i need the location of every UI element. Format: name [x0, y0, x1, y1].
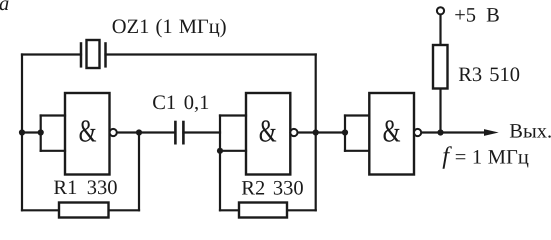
junction node U1 input bar [38, 129, 44, 135]
resistor R2 [239, 203, 287, 218]
wire U3 top input stub [345, 114, 369, 116]
capacitor C1 [175, 121, 183, 145]
junction node U2 output loop [313, 129, 319, 135]
gate U3 [369, 93, 421, 175]
svg-text:+5 В: +5 В [454, 5, 500, 27]
label OZ1 (1 MHz) [112, 16, 227, 38]
+5V terminal [437, 7, 444, 14]
wire U2 top input stub [220, 114, 246, 116]
wire bottom R2 [220, 209, 316, 211]
label R1 330 [53, 177, 117, 199]
wire U1 top input stub [41, 114, 65, 116]
svg-text:&: & [383, 113, 401, 149]
svg-text:R2 330: R2 330 [241, 178, 303, 200]
gate U1 [65, 93, 117, 175]
wire top loop right segment [106, 53, 316, 55]
svg-text:R1 330: R1 330 [53, 177, 117, 199]
label C1 0,1 [152, 92, 209, 114]
wire U3 bottom input stub [345, 150, 369, 152]
wire bottom R1 [22, 209, 139, 211]
wire U2 output [298, 131, 346, 133]
wire top loop left segment [22, 53, 81, 55]
label R3 510 [458, 64, 520, 86]
label +5 V [454, 5, 500, 27]
label R2 330 [241, 178, 303, 200]
svg-text:R3 510: R3 510 [458, 64, 520, 86]
label output [509, 120, 551, 142]
wire feedback vertical U1 output [138, 133, 140, 211]
svg-text:C1 0,1: C1 0,1 [152, 92, 209, 114]
wire crystal loop right vertical [315, 55, 317, 211]
svg-text:f = 1 МГц: f = 1 МГц [442, 143, 529, 170]
output arrow [484, 129, 499, 136]
wire U3 output to arrow [421, 131, 485, 133]
wire U2 bottom input stub [220, 150, 246, 152]
svg-text:OZ1 (1 МГц): OZ1 (1 МГц) [112, 16, 227, 38]
junction node U3 input [342, 129, 348, 135]
junction node U1 input left [19, 129, 25, 135]
wire left vertical [21, 55, 23, 211]
svg-text:Вых.: Вых. [509, 120, 551, 142]
wire U1 output [117, 131, 176, 133]
junction node output R3 [437, 129, 443, 135]
svg-text:&: & [259, 113, 277, 149]
gate U2 [246, 93, 298, 175]
wire U1 input bracket bar [40, 116, 42, 151]
resistor R3 [433, 45, 448, 89]
wire U2 input bracket bar and feedback [219, 116, 221, 211]
svg-text:а: а [0, 0, 9, 15]
wire U3 input bracket bar [344, 116, 346, 151]
wire R3 top lead [439, 15, 441, 46]
junction node U2 input [217, 148, 223, 154]
svg-text:&: & [79, 113, 97, 149]
junction node U1 output [136, 129, 142, 135]
label figure letter a [0, 0, 9, 15]
wire U1 bottom input stub [41, 150, 65, 152]
wire R3 bottom lead [439, 89, 441, 133]
wire U1 input tap [22, 131, 41, 133]
label f = 1 MHz [442, 143, 529, 170]
wire C1 to U2 [183, 131, 220, 133]
quartz crystal OZ1 [81, 40, 106, 68]
resistor R1 [59, 203, 109, 218]
